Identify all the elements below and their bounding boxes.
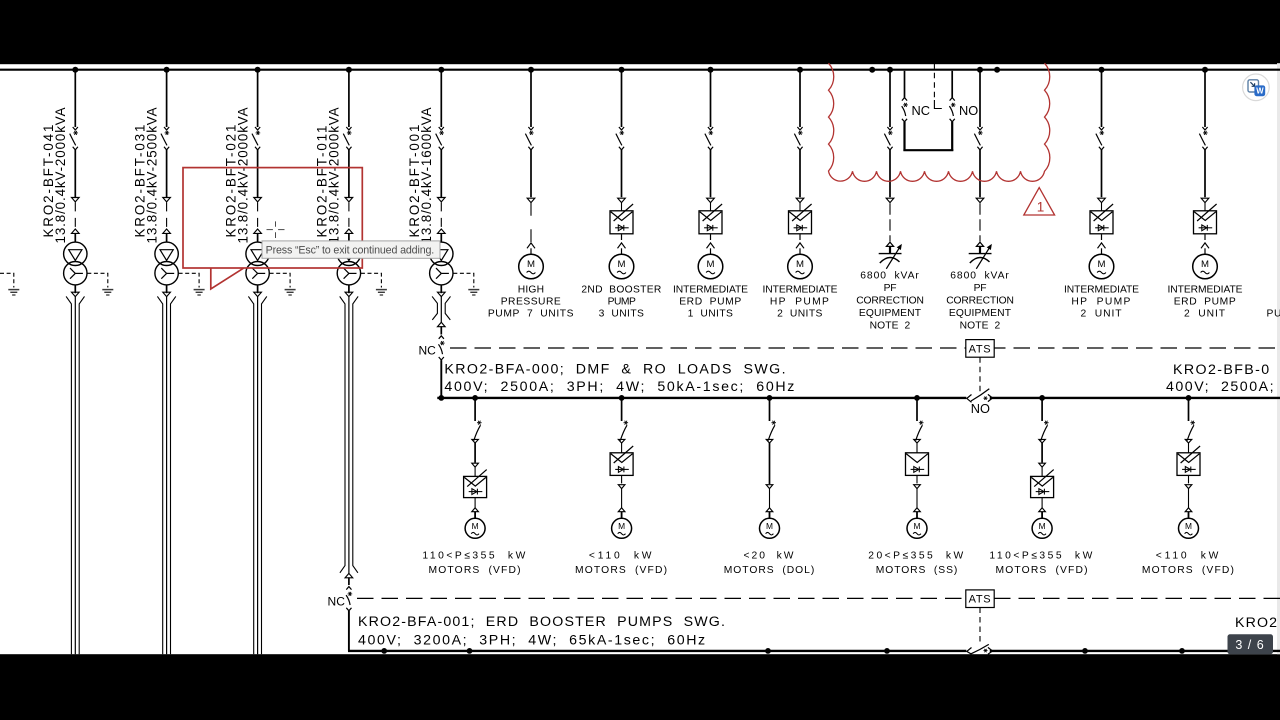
label rating 13.8/0.4kV-2000kVA (rotated) — [53, 107, 68, 244]
transformer T1 wye winding — [64, 262, 87, 285]
svg-text:110<P≤355 kW: 110<P≤355 kW — [422, 550, 527, 561]
arrow down motor feeder 1 — [472, 463, 479, 467]
svg-text:110<P≤355 kW: 110<P≤355 kW — [989, 550, 1094, 561]
cable run feeder 1 (double-line) — [66, 296, 84, 654]
wire bus drop feeder 2 — [166, 71, 168, 127]
svg-text:NOTE 2: NOTE 2 — [870, 320, 911, 331]
arrow down pump feeder 6 — [1201, 198, 1209, 202]
circuit breaker CB-T2 (13.8kV feeder 2) — [161, 127, 169, 150]
cable feeder 5 (short run to 400V bus KRO2-BFA-000) — [432, 296, 450, 322]
label KRO2-BFT-011 (rotated) — [315, 124, 330, 238]
svg-text:6800 kVAr: 6800 kVAr — [860, 270, 919, 281]
node junction on 13.8kV bus (tie section) — [887, 67, 893, 73]
interlock linkage dashed — [934, 63, 941, 108]
dashed wire PF feeder — [889, 203, 891, 241]
wire bus drop motor feeder 1 — [474, 399, 476, 421]
wire bus drop feeder 5 — [440, 71, 442, 127]
label pump feeder 1 — [488, 284, 574, 319]
circuit breaker motor feeder 4 — [914, 421, 924, 443]
svg-text:PUMP: PUMP — [608, 297, 636, 308]
13.8kV main bus — [0, 69, 1280, 71]
svg-text:<110 kW: <110 kW — [589, 550, 654, 561]
svg-text:NC: NC — [912, 103, 930, 118]
NO tie switch on bus 2 — [967, 644, 993, 654]
svg-text:<110 kW: <110 kW — [1156, 550, 1221, 561]
wire bus drop feeder 1 — [74, 71, 76, 127]
arrow down PF feeder — [976, 198, 984, 202]
arrow up motor feeder 3 — [766, 508, 773, 519]
ground symbol transformer T5 — [468, 290, 479, 295]
label motor group 4 — [868, 550, 966, 576]
node junction pump feeder on 13.8kV bus — [619, 67, 625, 73]
svg-text:KRO2-BFA-000; DMF & RO LOA: KRO2-BFA-000; DMF & RO LOADS SWG. — [444, 361, 787, 377]
node junction on 400V bus 2 — [381, 648, 387, 654]
cable run feeder 2 (double-line) — [157, 296, 175, 654]
node junction on 400V bus 1 — [914, 395, 920, 401]
svg-text:ERD PUMP: ERD PUMP — [679, 297, 742, 308]
arrow down motor feeder 5 — [1039, 463, 1046, 467]
circuit breaker pump feeder 1 — [525, 127, 533, 150]
circuit breaker NC incomer (KRO2-BFA-001) — [346, 587, 352, 611]
wire NO tie lower — [951, 122, 953, 151]
arrow down pump feeder 5 — [1098, 198, 1106, 202]
VFD drive motor feeder 5 — [1031, 467, 1054, 498]
label pump feeder 5 — [1064, 284, 1139, 319]
400V bus 2 right section — [990, 650, 1280, 652]
circuit breaker CB-T5 (13.8kV feeder 5) — [436, 127, 444, 150]
node junction on 400V bus 1 — [1186, 395, 1192, 401]
bus KRO2-BFB-001 label (right, cut) — [1235, 615, 1278, 631]
circuit breaker pump feeder 6 — [1199, 127, 1207, 150]
arrow down pump feeder 1 — [527, 198, 535, 202]
capacitor bank (PF correction) — [879, 242, 902, 269]
label partial pump (right edge) — [1267, 309, 1280, 320]
svg-text:1 UNITS: 1 UNITS — [688, 309, 734, 320]
svg-text:2 UNIT: 2 UNIT — [1081, 309, 1123, 320]
motor M4 — [788, 254, 813, 279]
circuit breaker pump feeder 5 — [1096, 127, 1104, 150]
label NC (bus 2 incomer) — [328, 594, 346, 608]
word export icon (top right) — [1243, 74, 1270, 101]
drawout arrows feeder 2 — [163, 198, 171, 234]
svg-text:HP PUMP: HP PUMP — [770, 297, 830, 308]
ground symbol transformer T4 — [376, 290, 387, 295]
node junction on 400V bus 1 — [1039, 395, 1045, 401]
wire NC tie drop — [904, 71, 906, 98]
wire bus drop motor feeder 4 — [916, 399, 918, 421]
svg-text:MOTORS (VFD): MOTORS (VFD) — [996, 565, 1089, 576]
VFD drive motor feeder 6 — [1177, 443, 1200, 475]
circuit breaker NC incomer (KRO2-BFA-000) — [439, 336, 445, 360]
page badge 3/6 — [1228, 634, 1274, 654]
svg-text:ATS: ATS — [969, 594, 992, 606]
svg-text:MOTORS (VFD): MOTORS (VFD) — [575, 565, 668, 576]
ATS interlock dashed line (bus 1) — [450, 347, 1280, 349]
dashed wire PF feeder — [979, 203, 981, 241]
wire to transformer T2 — [166, 233, 168, 242]
label KRO2-BFT-031 (rotated) — [132, 123, 147, 238]
drawout arrows feeder 3 — [254, 198, 262, 234]
svg-text:1: 1 — [1037, 200, 1045, 215]
svg-text:M: M — [707, 259, 715, 270]
label motor group 1 — [422, 550, 527, 576]
svg-text:M: M — [1039, 521, 1046, 531]
svg-text:NOTE 2: NOTE 2 — [960, 320, 1001, 331]
motor M (400V) feeder 5 — [1032, 518, 1052, 538]
VFD drive pump feeder 2 — [610, 203, 633, 234]
NO tie switch on bus 1 — [967, 389, 993, 403]
bus KRO2-BFB-000 label (right, cut) — [1166, 362, 1275, 395]
wire VFD to motor arrows 2 — [618, 234, 626, 254]
svg-text:13.8/0.4kV-2000kVA: 13.8/0.4kV-2000kVA — [53, 107, 68, 244]
svg-text:<20 kW: <20 kW — [744, 550, 796, 561]
drawout arrows feeder 1 — [72, 198, 80, 234]
svg-text:MOTORS (DOL): MOTORS (DOL) — [724, 565, 816, 576]
circuit breaker pump feeder 4 — [794, 127, 802, 150]
node junction on 400V bus 2 — [1082, 648, 1088, 654]
arrow transformer T1 secondary — [72, 285, 80, 297]
transformer T1 neutral ground tail — [87, 273, 108, 287]
svg-text:400V; 2500A; 3PH; 4W; 50kA: 400V; 2500A; 3PH; 4W; 50kA-1sec; 60Hz — [444, 379, 796, 395]
arrow up pump feeder 1 — [527, 243, 535, 254]
wire cable 5 to NC breaker — [440, 326, 442, 334]
wire bus drop pump feeder 3 — [710, 71, 712, 127]
wire bus drop motor feeder 6 — [1188, 399, 1190, 421]
node junction T3 on 13.8kV bus — [255, 67, 261, 73]
wire NC tie lower — [903, 122, 905, 151]
motor M (400V) feeder 3 — [760, 518, 780, 538]
cable run feeder 3 (double-line) — [248, 296, 266, 654]
arrow transformer T4 secondary — [345, 285, 353, 297]
label motor group 6 — [1142, 550, 1235, 576]
wire feeder 2 to drawout — [166, 150, 168, 197]
top letterbox bar — [0, 0, 1280, 64]
ATS box (bus 2) — [966, 590, 994, 608]
svg-text:NC: NC — [418, 344, 436, 358]
wire motor feeder 3 — [769, 443, 771, 484]
circuit breaker NO bus tie — [949, 98, 955, 122]
node junction on 13.8kV bus (tie section) — [977, 67, 983, 73]
circuit breaker NC bus tie — [902, 98, 908, 122]
ground symbol transformer T2 — [194, 290, 205, 295]
dashed wire pump feeder 1 — [530, 203, 532, 242]
svg-text:M: M — [1185, 521, 1192, 531]
svg-text:3 / 6: 3 / 6 — [1235, 638, 1264, 652]
svg-text:2 UNIT: 2 UNIT — [1184, 309, 1226, 320]
svg-text:2ND BOOSTER: 2ND BOOSTER — [581, 284, 661, 295]
svg-text:M: M — [1201, 259, 1209, 270]
arrow down PF feeder — [886, 198, 894, 202]
arrow up motor feeder 6 — [1185, 508, 1192, 519]
wire bus drop feeder 3 — [257, 71, 259, 127]
label rating 13.8/0.4kV-1600kVA (rotated) — [419, 107, 434, 244]
circuit breaker PF feeder — [974, 127, 982, 150]
svg-text:HIGH: HIGH — [518, 284, 544, 295]
VFD drive motor feeder 2 — [610, 443, 633, 475]
transformer T2 (KRO2-BFT-031) delta winding — [155, 242, 178, 265]
label PF correction equipment — [856, 270, 924, 331]
wire bus drop PF feeder — [889, 71, 891, 127]
label NC (bus tie) — [912, 103, 930, 118]
circuit breaker motor feeder 2 — [618, 421, 628, 443]
wire VFD to motor arrows 4 — [796, 234, 804, 254]
drawout arrows feeder 5 — [438, 198, 446, 234]
svg-text:INTERMEDIATE: INTERMEDIATE — [1064, 284, 1139, 295]
ground symbol transformer T3 — [285, 290, 296, 295]
svg-text:13.8/0.4kV-2500kVA: 13.8/0.4kV-2500kVA — [144, 107, 159, 244]
ATS box (bus 1) — [966, 340, 994, 358]
wire pump feeder 3 — [710, 150, 712, 197]
ATS interlock dashed line (bus 2) — [357, 597, 1280, 599]
svg-text:400V; 2500A;: 400V; 2500A; — [1166, 379, 1275, 395]
wire bus drop motor feeder 5 — [1041, 399, 1043, 421]
wire pump feeder 2 — [621, 150, 623, 197]
node junction on 400V bus 2 — [884, 648, 890, 654]
label NC (bus 1 incomer) — [418, 344, 436, 358]
label rating 13.8/0.4kV-2000kVA (rotated) — [235, 107, 250, 244]
label pump feeder 3 — [673, 284, 748, 319]
wire bus drop pump feeder 5 — [1101, 71, 1103, 127]
400V bus 1 left section (KRO2-BFA-000) — [437, 397, 966, 399]
svg-text:NC: NC — [328, 594, 346, 608]
VFD drive pump feeder 3 — [699, 203, 722, 234]
arrow down motor feeder 6 — [1185, 475, 1192, 488]
wire pump feeder 5 — [1101, 150, 1103, 197]
arrow down motor feeder 4 — [914, 475, 921, 488]
label rating 13.8/0.4kV-2500kVA (rotated) — [144, 107, 159, 244]
bus KRO2-BFA-000 label — [444, 361, 796, 395]
right edge strip — [1277, 63, 1280, 654]
transformer T5 (KRO2-BFT-001) delta winding — [430, 242, 453, 265]
circuit breaker motor feeder 1 — [472, 421, 482, 443]
cable run feeder 4 (double-line, to 400V bus KRO2-BFA-001) — [340, 296, 358, 573]
transformer T2 wye winding — [155, 262, 178, 285]
wire VFD to motor arrows 3 — [707, 234, 715, 254]
svg-text:M: M — [472, 521, 479, 531]
motor M (400V) feeder 4 — [907, 518, 927, 538]
svg-text:HP PUMP: HP PUMP — [1071, 297, 1131, 308]
svg-text:W: W — [1256, 87, 1264, 96]
circuit breaker motor feeder 5 — [1039, 421, 1049, 443]
arrow up motor feeder 4 — [914, 508, 921, 519]
wire tie bottom link — [903, 149, 953, 151]
arrow down pump feeder 2 — [618, 198, 626, 202]
svg-text:M: M — [527, 259, 535, 270]
node junction pump feeder on 13.8kV bus — [1202, 67, 1208, 73]
wire bus drop motor feeder 3 — [769, 399, 771, 421]
wire bus drop pump feeder 2 — [621, 71, 623, 127]
wire motor feeder 1 — [474, 443, 476, 463]
selection rectangle (red) — [183, 168, 362, 289]
svg-text:EQUIPMENT: EQUIPMENT — [859, 308, 922, 319]
arrow down motor feeder 2 — [618, 475, 625, 488]
arrow down motor feeder 3 — [766, 485, 773, 489]
svg-text:KRO2-BFA-001; ERD BOOSTER P: KRO2-BFA-001; ERD BOOSTER PUMPS SWG. — [358, 614, 726, 630]
svg-text:13.8/0.4kV-2000kVA: 13.8/0.4kV-2000kVA — [327, 107, 342, 244]
svg-text:M: M — [766, 521, 773, 531]
svg-text:M: M — [618, 259, 626, 270]
soft starter motor feeder 4 — [906, 443, 929, 475]
wire cable 4 to NC breaker — [348, 577, 350, 585]
transformer T3 (KRO2-BFT-021) delta winding — [246, 242, 269, 265]
wire motor feeder 4 — [916, 489, 918, 508]
circuit breaker pump feeder 2 — [616, 127, 624, 150]
arrow up motor feeder 2 — [618, 508, 625, 519]
node junction on 400V bus 1 — [438, 395, 444, 401]
wire dashed tail transformer T0 (off-screen) — [0, 273, 14, 287]
svg-text:PUMP 7 UNITS: PUMP 7 UNITS — [488, 309, 574, 320]
transformer T4 (KRO2-BFT-011) delta winding — [337, 242, 360, 265]
node junction pump feeder on 13.8kV bus — [1099, 67, 1105, 73]
circuit breaker PF feeder — [884, 127, 892, 150]
transformer T2 neutral ground tail — [179, 273, 200, 287]
motor M3 — [698, 254, 723, 279]
wire motor feeder 2 — [621, 489, 623, 508]
ground symbol transformer T0 — [8, 290, 19, 295]
svg-text:M: M — [796, 259, 804, 270]
crosshair cursor — [267, 221, 285, 238]
400V bus 2 left section (KRO2-BFA-001) — [348, 650, 966, 652]
transformer T5 wye winding — [430, 262, 453, 285]
VFD drive pump feeder 5 — [1090, 203, 1113, 234]
svg-text:MOTORS (VFD): MOTORS (VFD) — [1142, 565, 1235, 576]
wire PF feeder — [889, 150, 891, 197]
svg-text:NO: NO — [971, 401, 990, 416]
svg-text:6800 kVAr: 6800 kVAr — [950, 270, 1009, 281]
label KRO2-BFT-001 (rotated) — [407, 123, 422, 238]
tooltip Press Esc — [262, 241, 440, 258]
arrow down pump feeder 3 — [707, 198, 715, 202]
wire to transformer T4 — [348, 233, 350, 242]
bus KRO2-BFA-001 label — [358, 614, 726, 649]
wire VFD to motor 5 — [1041, 498, 1043, 508]
drawout arrows feeder 4 — [345, 198, 353, 234]
circuit breaker CB-T1 (13.8kV feeder 1) — [70, 127, 78, 150]
wire feeder 5 to drawout — [440, 150, 442, 197]
motor M2 — [609, 254, 634, 279]
svg-text:PRESSURE: PRESSURE — [501, 297, 562, 308]
svg-text:M: M — [618, 521, 625, 531]
VFD drive pump feeder 6 — [1194, 203, 1217, 234]
node junction on 400V bus 1 — [619, 395, 625, 401]
motor M6 — [1193, 254, 1218, 279]
svg-text:INTERMEDIATE: INTERMEDIATE — [1168, 284, 1243, 295]
label rating 13.8/0.4kV-2000kVA (rotated) — [327, 107, 342, 244]
arrow transformer T3 secondary — [254, 285, 262, 297]
svg-text:2 UNITS: 2 UNITS — [777, 309, 823, 320]
motor M5 — [1089, 254, 1114, 279]
svg-text:MOTORS (SS): MOTORS (SS) — [876, 565, 958, 576]
wire bus drop pump feeder 4 — [799, 71, 801, 127]
node junction T2 on 13.8kV bus — [164, 67, 170, 73]
wire VFD to motor arrows 5 — [1098, 234, 1106, 254]
svg-text:MOTORS (VFD): MOTORS (VFD) — [429, 565, 522, 576]
wire bus drop pump feeder 6 — [1204, 71, 1206, 127]
svg-text:NO: NO — [959, 103, 978, 118]
svg-text:M: M — [914, 521, 921, 531]
svg-text:CORRECTION: CORRECTION — [856, 295, 924, 306]
wire motor feeder 5 — [1041, 443, 1043, 463]
motor M (400V) feeder 6 — [1179, 518, 1199, 538]
circuit breaker motor feeder 6 — [1185, 421, 1195, 443]
node junction on 400V bus 2 — [765, 648, 771, 654]
wire feeder 1 to drawout — [74, 150, 76, 197]
transformer T1 (KRO2-BFT-041) delta winding — [64, 242, 87, 265]
wire NO tie drop — [951, 71, 953, 98]
arrow up motor feeder 1 — [472, 508, 479, 519]
label motor group 5 — [989, 550, 1094, 576]
node junction pump feeder on 13.8kV bus — [708, 67, 714, 73]
label KRO2-BFT-021 (rotated) — [223, 123, 238, 238]
svg-text:KRO2: KRO2 — [1235, 615, 1278, 631]
wire VFD to motor arrows 6 — [1201, 234, 1209, 254]
arrow cable 4 end — [345, 573, 353, 577]
label NO (bus 1 tie) — [971, 401, 990, 416]
circuit breaker motor feeder 3 — [766, 421, 776, 443]
node junction T4 on 13.8kV bus — [346, 67, 352, 73]
circuit breaker CB-T3 (13.8kV feeder 3) — [252, 127, 260, 150]
svg-text:PU: PU — [1267, 309, 1280, 320]
motor M (400V) feeder 1 — [465, 518, 485, 538]
wire feeder 3 to drawout — [257, 150, 259, 197]
svg-text:13.8/0.4kV-2000kVA: 13.8/0.4kV-2000kVA — [235, 107, 250, 244]
wire pump feeder 1 — [530, 150, 532, 197]
ground symbol transformer T1 — [102, 290, 113, 295]
label pump feeder 2 — [581, 284, 661, 319]
wire to transformer T3 — [257, 233, 259, 242]
svg-text:M: M — [1098, 259, 1106, 270]
label NO (bus tie) — [959, 103, 978, 118]
ATS dashed drop to NO (bus 1) — [979, 357, 981, 391]
node junction on 400V bus 2 — [1179, 648, 1185, 654]
transformer T3 neutral ground tail — [270, 273, 291, 287]
transformer T4 wye winding — [337, 262, 360, 285]
wire bus drop PF feeder — [979, 71, 981, 127]
transformer T4 neutral ground tail — [361, 273, 382, 287]
label pump feeder 6 — [1168, 284, 1243, 319]
node junction on 400V bus 1 — [472, 395, 478, 401]
wire bus drop pump feeder 1 — [530, 71, 532, 127]
label motor group 3 — [724, 550, 816, 576]
bottom letterbox bar — [0, 654, 1280, 720]
svg-text:3 UNITS: 3 UNITS — [599, 309, 645, 320]
svg-text:PF: PF — [884, 283, 897, 294]
svg-text:PF: PF — [974, 283, 987, 294]
node junction T1 on 13.8kV bus — [72, 67, 78, 73]
wire motor feeder 6 — [1188, 489, 1190, 508]
revision cloud (red) — [829, 63, 1050, 181]
label pump feeder 4 — [763, 284, 838, 319]
circuit breaker pump feeder 3 — [705, 127, 713, 150]
svg-text:Press “Esc” to exit continued: Press “Esc” to exit continued adding. — [266, 244, 435, 256]
node junction on 400V bus 2 — [467, 648, 473, 654]
node junction pump feeder on 13.8kV bus — [797, 67, 803, 73]
arrow transformer T5 secondary — [438, 285, 446, 297]
arrow up motor feeder 5 — [1039, 508, 1046, 519]
wire motor feeder lower 3 — [769, 489, 771, 508]
wire bus drop feeder 4 — [348, 71, 350, 127]
node junction T5 on 13.8kV bus — [438, 67, 444, 73]
wire VFD to motor 1 — [474, 498, 476, 508]
wire bus drop motor feeder 2 — [621, 399, 623, 421]
label motor group 2 — [575, 550, 668, 576]
svg-text:ERD PUMP: ERD PUMP — [1174, 297, 1237, 308]
svg-text:400V; 3200A; 3PH; 4W; 65kA: 400V; 3200A; 3PH; 4W; 65kA-1sec; 60Hz — [358, 633, 707, 649]
arrow cable 5 end — [438, 322, 446, 326]
400V bus 1 right section (KRO2-BFB-000) — [990, 397, 1280, 399]
wire to transformer T1 — [74, 233, 76, 242]
svg-text:CORRECTION: CORRECTION — [946, 295, 1014, 306]
